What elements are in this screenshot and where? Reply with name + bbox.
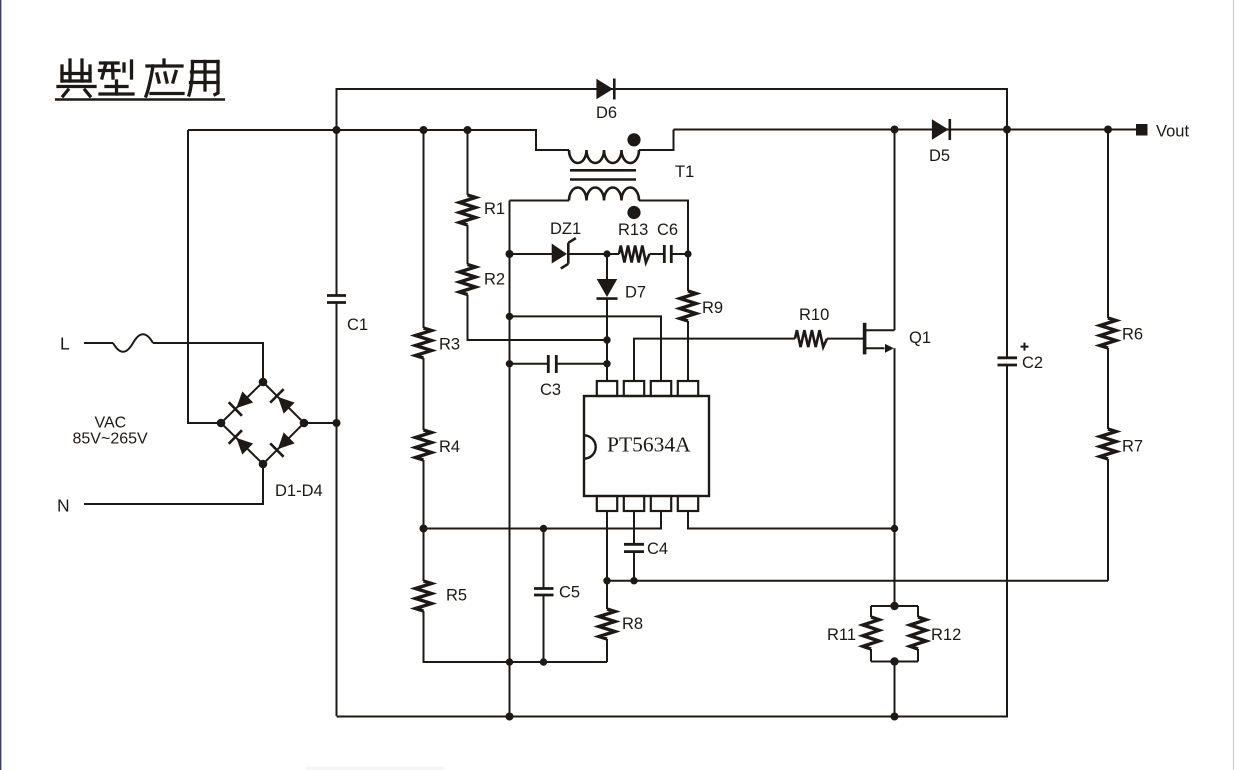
wire ground link y=662 xyxy=(424,661,608,663)
pin 8 (bottom) xyxy=(678,496,698,511)
C2 plus sign xyxy=(1021,343,1029,351)
wire primary right lead to drain rail xyxy=(639,130,674,151)
svg-text:L: L xyxy=(60,334,70,354)
wire R9 top lead xyxy=(687,254,689,291)
title char 用 xyxy=(189,62,218,96)
wire Q1 drain up xyxy=(894,130,896,331)
pin 3 (top) xyxy=(651,381,671,396)
wire secondary right lead xyxy=(639,201,688,255)
svg-text:R1: R1 xyxy=(484,200,505,218)
wire HV bus y=130 xyxy=(188,130,569,150)
svg-text:R6: R6 xyxy=(1122,326,1143,344)
resistor R10 xyxy=(795,330,827,347)
diode D3 (bottom-left edge) xyxy=(229,430,255,456)
bottom faint smudge xyxy=(305,767,445,770)
wire D6 top loop xyxy=(337,89,1008,130)
junction bridge bottom xyxy=(259,460,268,469)
capacitor C5 xyxy=(543,529,545,589)
svg-text:C6: C6 xyxy=(657,221,678,239)
wire pin6 to C4 xyxy=(633,511,635,544)
wire C6 to right rail xyxy=(671,253,688,255)
transformer secondary polarity dot xyxy=(627,206,640,219)
diode D5 xyxy=(932,119,949,140)
pin 5 (bottom) xyxy=(597,496,617,511)
wire R7 bottom to feedback row xyxy=(1107,459,1109,581)
zener diode DZ1 xyxy=(552,244,567,264)
wire R5 bottom xyxy=(424,611,608,662)
wire C1 column top xyxy=(336,130,338,295)
junction R8 top xyxy=(603,577,610,584)
wire C3 row xyxy=(510,363,608,365)
junction bridge right xyxy=(300,419,309,428)
svg-text:PT5634A: PT5634A xyxy=(607,433,691,457)
wire R11R12 to ground rail xyxy=(894,662,896,717)
svg-text:C2: C2 xyxy=(1022,354,1043,372)
svg-text:D5: D5 xyxy=(929,147,950,165)
svg-text:R9: R9 xyxy=(702,299,723,317)
junction left rail / zener row xyxy=(506,250,514,258)
wire R4 to node xyxy=(423,460,425,581)
wire gate row from pin2 xyxy=(634,339,795,381)
junction bridge left xyxy=(217,419,226,428)
svg-text:C4: C4 xyxy=(647,540,668,558)
svg-text:C1: C1 xyxy=(347,316,368,334)
wire R13 to C6 xyxy=(650,253,665,255)
wire secondary left lead + left rail xyxy=(510,201,570,717)
junction snubber right xyxy=(684,250,691,257)
wire bridge right to ground column xyxy=(304,422,336,424)
pin 1 (top) xyxy=(597,381,617,396)
junction left rail C3 xyxy=(506,360,513,367)
pin 7 (bottom) xyxy=(651,496,671,511)
junction bridge top xyxy=(259,378,268,387)
junction ground column / bridge xyxy=(333,419,341,427)
pin 2 (top) xyxy=(624,381,644,396)
wire pin8 to source column xyxy=(688,511,895,529)
resistor R6 xyxy=(1100,318,1116,348)
wire ground rail xyxy=(337,366,1008,717)
wire fuse to bridge top xyxy=(153,343,263,382)
junction rail/R6 xyxy=(1104,126,1112,134)
wire R10 to gate xyxy=(827,338,863,340)
resistor R11 xyxy=(871,606,918,662)
svg-text:R11: R11 xyxy=(827,626,856,644)
wire L lead xyxy=(84,342,113,344)
capacitor C4 xyxy=(624,544,644,551)
junction rail/R11R12 xyxy=(891,713,899,721)
svg-text:R13: R13 xyxy=(618,221,648,239)
svg-text:R4: R4 xyxy=(439,438,460,456)
wire D7 cathode to pin1 xyxy=(606,299,608,381)
svg-text:C3: C3 xyxy=(540,381,561,399)
svg-text:N: N xyxy=(57,496,70,516)
title char 型 xyxy=(100,61,134,94)
junction source column y=528 xyxy=(891,525,898,532)
wire R9 bottom to pin4 xyxy=(687,321,689,381)
transformer T1 core xyxy=(570,170,636,179)
svg-text:VAC: VAC xyxy=(95,415,127,432)
wire R3 column top xyxy=(423,130,425,328)
capacitor C6 xyxy=(664,245,671,263)
transistor Q1 xyxy=(863,323,867,355)
diode D7 xyxy=(597,279,618,297)
resistor R2 xyxy=(460,265,476,295)
resistor R5 xyxy=(416,581,432,611)
wire R1 column top xyxy=(467,130,469,195)
svg-text:R12: R12 xyxy=(931,626,961,644)
junction C4 bottom xyxy=(630,577,637,584)
wire left feed y=528 to pin7 xyxy=(424,511,662,529)
junction y662/C5 xyxy=(540,658,547,665)
diode D4 (bottom-right edge) xyxy=(270,431,296,457)
resistor R7 xyxy=(1100,429,1116,459)
bridge rectifier D1-D4 edges xyxy=(221,382,304,464)
wire C1 column bottom / ground column xyxy=(336,303,338,716)
wire R6-R7 xyxy=(1107,348,1109,429)
wire Vout rail y=129.5 xyxy=(674,129,1137,131)
svg-text:R8: R8 xyxy=(622,615,643,633)
wire R8 bottom xyxy=(606,639,608,662)
transformer T1 primary winding xyxy=(569,150,639,163)
svg-text:D1-D4: D1-D4 xyxy=(275,482,323,500)
resistor R13 xyxy=(619,246,650,263)
junction D7/R2 line xyxy=(603,336,610,343)
svg-text:R2: R2 xyxy=(484,271,505,289)
capacitor C2 xyxy=(998,358,1018,365)
junction R4/R5/IC line xyxy=(420,525,428,533)
resistor R9 xyxy=(680,291,696,321)
svg-text:85V~265V: 85V~265V xyxy=(73,431,149,448)
svg-text:Vout: Vout xyxy=(1156,123,1189,141)
junction bus/R3 column xyxy=(420,126,428,134)
transformer T1 secondary winding xyxy=(569,188,639,201)
title char 应 xyxy=(146,60,183,96)
junction rail/Q1 drain xyxy=(891,126,899,134)
capacitor C3 xyxy=(548,355,556,373)
pin 6 (bottom) xyxy=(624,496,644,511)
wire N to bridge bottom xyxy=(84,464,263,504)
resistor R3 xyxy=(416,328,432,358)
junction rail/C2 top loop xyxy=(1003,126,1011,134)
junction bus/R1 column xyxy=(464,126,472,134)
terminal Vout square xyxy=(1136,124,1148,136)
diode D1 (top-left edge) xyxy=(229,390,255,416)
svg-text:D6: D6 xyxy=(596,104,617,122)
wire D7 anode xyxy=(606,254,608,279)
page right gray border xyxy=(1233,0,1235,770)
svg-text:C5: C5 xyxy=(559,584,580,602)
diode D2 (top-right edge) xyxy=(270,389,296,415)
pin 4 (top) xyxy=(678,381,698,396)
svg-text:D7: D7 xyxy=(625,284,646,302)
fuse F1 xyxy=(113,334,153,352)
svg-text:R10: R10 xyxy=(799,306,829,324)
wire R1-R2 xyxy=(467,225,469,265)
resistor R12 xyxy=(871,606,918,662)
transformer primary polarity dot xyxy=(627,133,640,146)
junction R11R12 bottom xyxy=(890,657,898,665)
wire R2 bottom to D7 column xyxy=(468,295,608,341)
svg-text:R3: R3 xyxy=(439,336,460,354)
junction C5 top xyxy=(540,525,547,532)
svg-text:DZ1: DZ1 xyxy=(550,220,581,238)
junction rail/left rail xyxy=(506,713,514,721)
title char 典 xyxy=(58,60,95,96)
junction left rail y=316 xyxy=(506,313,513,320)
title 典型应用 underline xyxy=(55,98,225,100)
junction bus/C1 xyxy=(333,126,341,134)
wire R6 top lead xyxy=(1107,130,1109,319)
wire feedback row y=581 xyxy=(607,580,1108,582)
wire left rail to pin3 xyxy=(510,316,662,381)
capacitor C1 xyxy=(327,296,346,303)
junction D7/C3 line xyxy=(603,360,610,367)
junction y662/left rail xyxy=(506,658,513,665)
svg-text:T1: T1 xyxy=(675,163,694,181)
diode D6 xyxy=(596,79,613,100)
resistor R8 xyxy=(606,581,608,609)
wire pin5 down xyxy=(606,511,608,581)
resistor R1 xyxy=(460,195,476,225)
svg-text:R5: R5 xyxy=(446,587,467,605)
wire Q1 source down xyxy=(894,348,896,606)
op-amp U1 PT5634A body xyxy=(584,396,709,496)
junction R11R12 top xyxy=(890,602,898,610)
wire R3-R4 xyxy=(423,358,425,430)
wire bridge left to HV riser xyxy=(188,130,221,423)
svg-text:R7: R7 xyxy=(1122,438,1143,456)
resistor R4 xyxy=(416,430,432,460)
page left blue border xyxy=(0,0,2,770)
svg-text:Q1: Q1 xyxy=(909,329,931,347)
junction zener/D7 xyxy=(603,250,610,257)
wire zener row xyxy=(510,253,620,255)
